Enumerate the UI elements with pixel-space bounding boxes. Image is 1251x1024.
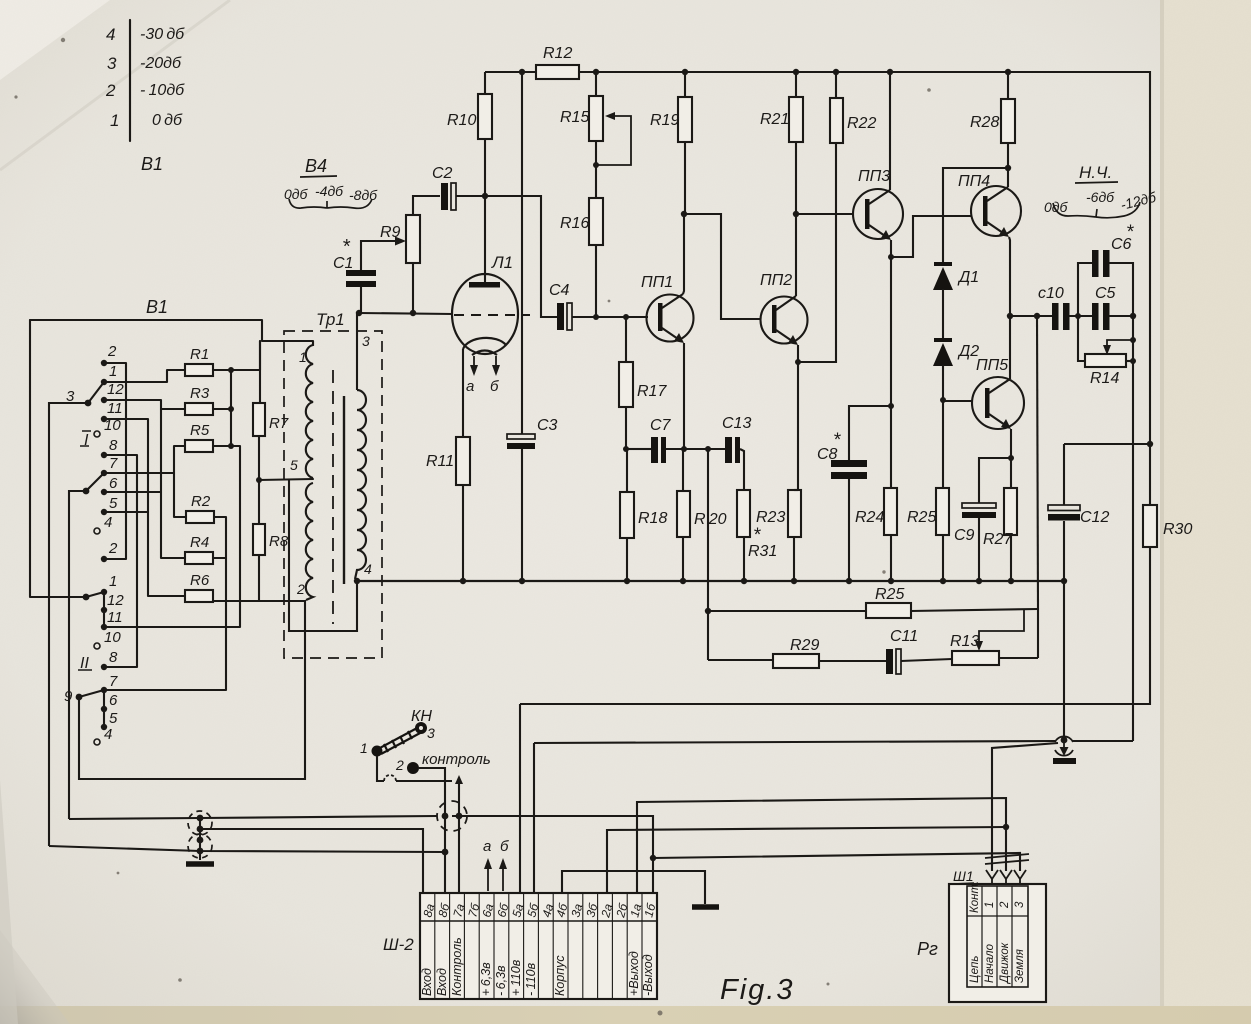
switch B1 section II lower open contact 4: [94, 739, 100, 745]
wire: R9 bottom to grid line: [412, 263, 414, 313]
wire: PP4 emitter down to C10 node: [1009, 237, 1010, 316]
wire: screen supply drop from top rail to C3: [521, 72, 523, 434]
R14 wiper arrow from output node: [1107, 340, 1133, 349]
svg-text:R1: R1: [190, 346, 209, 363]
svg-text:2: 2: [107, 343, 117, 360]
bottom tan band (page edge): [0, 1006, 1251, 1024]
svg-text:5: 5: [109, 710, 118, 727]
svg-text:-8дб: -8дб: [349, 187, 378, 203]
node: 1b drop to Sh1 ground wire: [650, 855, 656, 861]
svg-text:R19: R19: [650, 112, 679, 129]
svg-text:R22: R22: [847, 115, 876, 132]
svg-text:6: 6: [109, 475, 118, 492]
svg-text:R21: R21: [760, 111, 789, 128]
svg-text:б: б: [490, 378, 499, 395]
potentiometer R14: [1078, 316, 1085, 361]
top supply rail right of R12: [579, 72, 1150, 505]
switch B1 section II lower rotor arm: [79, 690, 104, 697]
wire: grid line from node to tube: [359, 313, 453, 314]
switch B1 section I lower rotor arm: [86, 473, 104, 491]
capacitor C4 plates: [557, 303, 564, 330]
resistor R8: [253, 524, 265, 555]
switch B1 section II upper contacts: [83, 589, 108, 670]
wire: B1 top bus to transformer pin1: [30, 320, 313, 341]
resistor R1: [185, 364, 213, 376]
wire: PP5 collector up to PP4 emitter node: [1009, 316, 1011, 379]
wire: contact 11(I) bus x148 to contact 5 and R6 left: [104, 419, 185, 596]
wire: PP3 collector to top rail: [889, 72, 891, 190]
switch B1 section II lower contacts: [76, 687, 108, 730]
svg-text:В1: В1: [141, 154, 163, 174]
svg-text:R4: R4: [190, 534, 209, 551]
wire: PP4 collector to R28 node: [1007, 168, 1009, 187]
wire: R9 top to C2: [413, 196, 440, 215]
wire: R10 top to rail / bottom to anode node: [484, 72, 486, 94]
right page-edge strip: [1162, 0, 1251, 1024]
svg-text:ПП2: ПП2: [760, 272, 792, 289]
svg-text:9: 9: [64, 688, 73, 705]
wire: R6 right lead: [213, 600, 259, 602]
switch B1 section II upper open contact 10: [94, 643, 100, 649]
resistor R15 (rheostat): [589, 96, 603, 141]
wire: +110v line risers (5a): [519, 704, 521, 893]
svg-text:4: 4: [104, 726, 112, 743]
node: kontrol/8b line tee of lower-left wire: [442, 849, 449, 856]
wire: cathode to R11: [462, 349, 464, 437]
svg-text:+ 6,3в: + 6,3в: [479, 962, 493, 996]
wire: R4 right lead: [213, 557, 226, 559]
svg-text:а: а: [466, 378, 474, 395]
wire: C3 bottom to rail: [521, 449, 523, 581]
node: pin4 on ground rail: [354, 578, 360, 584]
wire: PP3 emitter node chain down to R24: [890, 240, 892, 488]
svg-text:R15: R15: [560, 109, 589, 126]
wire: R22 bottom to PP2 emitter node: [798, 143, 836, 362]
wire: R5 right lead and drop x240 to contact 11(II): [104, 446, 240, 627]
svg-text:1: 1: [109, 363, 117, 380]
wire: C2 right to anode node: [456, 195, 485, 197]
wire: R1/R3/R5 right bus x231: [230, 370, 232, 446]
wire: contact 2(I) to ganged vertical x126 to lower contact 2: [104, 363, 126, 559]
svg-text:3: 3: [427, 725, 435, 741]
svg-text:R10: R10: [447, 112, 476, 129]
switch B1 section I upper contacts: [85, 360, 108, 458]
svg-text:-Выход: -Выход: [641, 954, 655, 996]
heater lead a with arrow: [473, 356, 475, 372]
svg-text:8: 8: [109, 649, 118, 666]
resistor R11: [456, 437, 470, 485]
transformer Tp1 core dashed line: [332, 370, 334, 624]
wire: R30 bottom down to +110v line: [520, 547, 1150, 704]
R13 wiper arrow: [979, 609, 1024, 645]
wire: contact 1(I) to R1 left: [104, 370, 185, 382]
wire: left bus to section II upper pivot: [30, 320, 84, 597]
svg-text:-20дб: -20дб: [140, 55, 182, 72]
svg-text:С5: С5: [1095, 285, 1116, 302]
wire: anode to C4 coupling: [485, 196, 557, 317]
wire: contact 7(I) bus x174, R5 left, R2 left: [104, 472, 174, 474]
resistor R4: [185, 552, 213, 564]
svg-text:+Выход: +Выход: [627, 951, 641, 996]
wire: PP1 collector up to R19 node: [683, 214, 684, 294]
transformer Tp1 secondary winding: [355, 390, 366, 579]
wire: bushing left to Sh1 pin1 (nachalo): [992, 743, 1058, 871]
wire: contact 8(I) bus x137 to contact 8(II): [104, 455, 137, 667]
svg-text:Корпус: Корпус: [553, 955, 567, 996]
wire: R11 bottom to ground rail: [462, 485, 464, 581]
svg-text:R14: R14: [1090, 370, 1119, 387]
chain link and ground lead: [199, 818, 201, 860]
wire: I-upper pivot bus to kontrol tee (input a): [49, 846, 445, 852]
wire: C1 top to R9 wiper arrow: [361, 241, 398, 270]
wire: II upper contacts 1-12-11 strap: [103, 592, 105, 627]
pushbutton KN actuator (hatched bar): [378, 727, 422, 754]
svg-text:ПП3: ПП3: [858, 168, 890, 185]
svg-text:ПП1: ПП1: [641, 274, 673, 291]
wire: PP1 emitter down to C7/R20 node: [683, 343, 685, 449]
shielded pair bond chain x200: [197, 815, 204, 855]
tube L1 cathode arc: [463, 338, 506, 349]
svg-text:- 110в: - 110в: [524, 962, 538, 996]
resistor R18: [620, 492, 634, 538]
node: R11 on rail: [460, 578, 466, 584]
shield circle pair 1: [188, 811, 212, 835]
connector Sh1 table texts: [969, 881, 1026, 985]
svg-text:5: 5: [109, 495, 118, 512]
svg-text:R23: R23: [756, 509, 785, 526]
svg-text:R16: R16: [560, 215, 589, 232]
wire: second pair conductor to 8a column: [200, 829, 423, 893]
svg-text:R17: R17: [637, 383, 667, 400]
transformer Tp1 primary lower winding (tap5 to pin2): [306, 483, 313, 600]
switch B1 section I lower contacts: [83, 470, 108, 562]
svg-text:С1: С1: [333, 255, 353, 272]
svg-text:R9: R9: [380, 224, 401, 241]
svg-text:С7: С7: [650, 417, 672, 434]
wire: output node vertical down to shield bushing: [1132, 316, 1134, 741]
R9 wiper arrowhead: [395, 237, 406, 246]
connector Sh-2 pin number labels: [420, 901, 658, 920]
svg-text:R30: R30: [1163, 521, 1192, 538]
wire: tap5 to pin4 return (L inside box): [289, 479, 357, 631]
wire: C13 right down to R31: [740, 449, 744, 490]
junction dots: resistor bank: [228, 367, 262, 483]
svg-text:R18: R18: [638, 510, 667, 527]
switch B1 section I lower open contact 4: [94, 528, 100, 534]
svg-text:1: 1: [360, 740, 368, 756]
wire: contact 6(I) into x161 bus: [104, 491, 161, 493]
wire: korpus 4b to chassis ground: [562, 871, 705, 904]
svg-text:7: 7: [109, 455, 118, 472]
output shield bushing with ground: [1055, 736, 1073, 742]
capacitor C1 plates: [346, 270, 376, 276]
connector Sh-2 signal name labels: [420, 937, 655, 996]
wire: secondary top (pin3) riser to grid line: [356, 313, 358, 390]
connector Sh1 table: [967, 886, 1028, 987]
svg-text:Конт.: Конт.: [969, 881, 981, 913]
svg-text:В4: В4: [305, 156, 327, 176]
N.Ch. scale arc with ticks: [1053, 203, 1096, 217]
wire: R3 left lead: [161, 408, 185, 410]
svg-text:3: 3: [107, 54, 117, 73]
wire: contact 12(I) vertical bus x161 to R3 left, contact 6, R4 left: [104, 400, 185, 558]
svg-text:-30 дб: -30 дб: [140, 26, 185, 43]
svg-text:Земля: Земля: [1014, 949, 1026, 983]
transformer Tp1 primary upper winding (pin1 to tap5): [306, 341, 313, 478]
wire: contact 5(I) into x148 bus: [104, 511, 148, 513]
chassis ground symbol (korpus): [692, 904, 719, 910]
svg-text:С13: С13: [722, 415, 751, 432]
svg-text:Контроль: Контроль: [450, 937, 464, 996]
wire: C4 right to PP1 base: [572, 316, 648, 318]
svg-text:С3: С3: [537, 417, 558, 434]
heater lead b with arrow: [495, 356, 497, 372]
svg-text:1: 1: [110, 111, 119, 130]
svg-text:4: 4: [106, 25, 115, 44]
svg-text:-6дб: -6дб: [1086, 189, 1115, 205]
svg-text:2: 2: [296, 581, 305, 597]
wire: R21/PP2 collector node to PP3 base: [796, 213, 854, 215]
wire: R8 bottom to R6 right bus to transformer pin 2: [259, 555, 305, 601]
svg-text:4: 4: [104, 514, 112, 531]
wire: KN contact1 down and right to 7a riser (with hop arc): [377, 756, 384, 781]
svg-text:5: 5: [290, 457, 298, 473]
resistor R19: [678, 97, 692, 142]
svg-text:2: 2: [395, 757, 404, 773]
svg-text:R13: R13: [950, 633, 979, 650]
svg-text:R2: R2: [191, 493, 211, 510]
svg-text:R27: R27: [983, 531, 1013, 548]
main ground rail: [357, 580, 1064, 582]
ground symbol at shield chain: [186, 861, 214, 867]
resistor R17: [619, 362, 633, 407]
resistor R30: [1143, 505, 1157, 547]
svg-text:-4дб: -4дб: [315, 183, 344, 199]
wire: PP2 collector up to R21 node: [795, 214, 797, 296]
svg-text:- 6,3в: - 6,3в: [494, 965, 508, 996]
connector Sh1 pin forks: [986, 870, 1026, 885]
wire: C12 top to right supply drop: [1064, 443, 1150, 445]
resistor R25 (bias): [936, 488, 949, 535]
bottom-left scan shadow: [0, 930, 70, 1024]
svg-text:1: 1: [109, 573, 117, 590]
attenuator table divider line: [129, 20, 131, 141]
pushbutton KN knob contact 3: [415, 722, 427, 734]
svg-text:В1: В1: [146, 297, 168, 317]
pushbutton KN contact 1: [372, 746, 383, 757]
resistor R3: [185, 403, 213, 415]
wire: C1 bottom to grid node: [360, 287, 362, 313]
tube L1 heater arc: [472, 351, 497, 356]
svg-text:Вход: Вход: [420, 968, 434, 996]
top supply rail left of R12: [485, 71, 536, 73]
top-left crease shadow: [0, 0, 230, 170]
svg-text:3: 3: [1014, 901, 1026, 908]
tube L1 anode bar: [469, 282, 500, 288]
wire: D2 bottom to PP5 base: [943, 400, 972, 402]
top-left light corner: [0, 0, 110, 80]
svg-text:Тр1: Тр1: [316, 310, 345, 329]
svg-text:а: а: [483, 838, 491, 855]
R15 wiper arrow and strap to bottom: [598, 116, 631, 165]
wire: PP3 emitter to PP4 base riser: [891, 216, 971, 257]
svg-text:0 дб: 0 дб: [152, 112, 183, 129]
node: grid/pin3/C1 junction: [356, 310, 362, 316]
wire: R1 right to bus node: [213, 341, 260, 370]
capacitor C8 branch: [888, 403, 894, 409]
svg-text:контроль: контроль: [422, 751, 491, 768]
feedback node riser x708: [707, 449, 709, 660]
svg-text:10: 10: [104, 629, 121, 646]
wire: R17 top to base node, bottom to C7 node: [625, 317, 627, 362]
svg-text:С6: С6: [1111, 236, 1132, 253]
resistor R5: [185, 440, 213, 452]
shield bushing circle at KN risers: [437, 801, 467, 831]
capacitor C3 plates: [507, 434, 535, 439]
connector Sh-2 column separators: [435, 893, 642, 999]
svg-text:С11: С11: [890, 628, 918, 645]
svg-text:Н.Ч.: Н.Ч.: [1079, 163, 1112, 182]
svg-text:R 20: R 20: [694, 511, 727, 528]
resistor R24: [884, 488, 897, 535]
wire: kontrol contact2 right and down to 8b column: [419, 768, 445, 893]
R23 top lead from PP2 emitter chain: [794, 489, 798, 491]
wire: 7a riser from KN down to connector: [458, 782, 460, 893]
svg-text:0дб: 0дб: [1044, 199, 1069, 215]
wire: anode lead up to R10/C2 node: [484, 196, 486, 282]
resistor R21: [789, 97, 803, 142]
tube L1 envelope: [452, 274, 518, 354]
wire: I-lower pivot bus to KN shield circle and to 1b drop: [69, 816, 437, 819]
svg-text:R12: R12: [543, 45, 572, 62]
svg-text:2: 2: [999, 901, 1011, 909]
svg-text:+ 110в: + 110в: [509, 959, 523, 996]
wire: section I lower pivot to left drop bus: [69, 491, 86, 819]
svg-text:3: 3: [362, 333, 370, 349]
resistor R16: [589, 198, 603, 245]
resistor R6: [185, 590, 213, 602]
wire: output line C10/C5 row: [1010, 315, 1052, 317]
wire: bushing to output vertical: [1072, 740, 1133, 742]
feedback riser to C10/C5 node: [1037, 316, 1038, 609]
svg-text:С2: С2: [432, 165, 453, 182]
svg-text:R24: R24: [855, 509, 884, 526]
connector Sh1 cable shield bars: [985, 854, 1029, 858]
switch B1 section II upper rotor arm: [86, 592, 104, 597]
svg-text:Рг: Рг: [917, 939, 938, 959]
svg-text:б: б: [500, 838, 509, 855]
resistor R12 (series in rail): [536, 65, 579, 79]
svg-text:Fig.3: Fig.3: [720, 974, 794, 1006]
svg-text:11: 11: [107, 400, 123, 417]
svg-text:с10: с10: [1038, 285, 1064, 302]
wire: 1b node to Sh1 pin3 (zemlya): [653, 853, 1020, 871]
svg-text:R11: R11: [426, 453, 454, 470]
svg-text:R25: R25: [875, 586, 904, 603]
svg-text:Движок: Движок: [999, 942, 1011, 985]
svg-text:2: 2: [108, 540, 118, 557]
svg-text:2: 2: [105, 81, 116, 100]
wire: -110v line (5b) to shield bushing: [533, 743, 535, 893]
svg-text:R25: R25: [907, 509, 936, 526]
switch B1 section I upper open contact 10: [94, 431, 100, 437]
svg-text:R3: R3: [190, 385, 210, 402]
svg-text:4: 4: [364, 561, 372, 577]
node: C3 on rail: [519, 578, 525, 584]
svg-text:ПП5: ПП5: [976, 357, 1008, 374]
shield circle pair 2: [188, 834, 212, 858]
wire: PP2 emitter node, R22 strap, down to R23: [797, 345, 799, 490]
resistor R20: [677, 491, 690, 537]
label B4 underline: [300, 176, 337, 177]
resistor R10: [478, 94, 492, 139]
svg-text:Д1: Д1: [957, 269, 979, 286]
resistor R7: [253, 403, 265, 436]
svg-text:7: 7: [109, 673, 118, 690]
transformer Tp1 dashed enclosure: [284, 331, 382, 658]
wire: II lower contacts 7-6-5 strap: [103, 690, 105, 727]
wire: D2 node down to R25 (vertical): [942, 400, 944, 488]
connector Sh1 body: [949, 884, 1046, 1002]
svg-text:R5: R5: [190, 422, 210, 439]
svg-text:12: 12: [107, 592, 124, 609]
svg-text:R28: R28: [970, 114, 999, 131]
svg-text:12: 12: [107, 381, 124, 398]
resistor R2: [186, 511, 214, 523]
resistor R31 (selected, asterisk): [737, 490, 750, 537]
wire: pivot 3 to left drop bus: [49, 403, 88, 846]
svg-text:Л1: Л1: [491, 253, 513, 272]
wire: R15 top to rail: [595, 72, 597, 96]
svg-text:С12: С12: [1080, 509, 1109, 526]
capacitor C2 plates: [441, 183, 448, 210]
wire: PP1 collector node to PP2 base: [684, 214, 761, 319]
transformer Tp1 core solid line: [343, 396, 345, 584]
resistor R22: [830, 98, 843, 143]
svg-text:11: 11: [107, 609, 123, 626]
connector Sh-2 body: [420, 893, 657, 999]
node: screen drop on top rail: [519, 69, 525, 75]
svg-text:8: 8: [109, 437, 118, 454]
svg-text:1: 1: [984, 902, 996, 908]
svg-text:С4: С4: [549, 282, 570, 299]
svg-text:1: 1: [299, 349, 307, 365]
node: anode / C2 / R10 junction: [482, 193, 488, 199]
svg-text:Начало: Начало: [984, 943, 996, 983]
svg-text:- 10дб: - 10дб: [140, 82, 185, 99]
wire: R16 bottom to PP1 base line: [595, 245, 597, 317]
svg-text:R8: R8: [269, 533, 289, 550]
diode chain top wire from R28 node: [943, 168, 1006, 263]
svg-text:0дб: 0дб: [284, 186, 309, 202]
wire: R15 bottom to R16 top: [595, 141, 597, 198]
resistor R23: [788, 490, 801, 537]
wire: 2a riser to Sh1: [607, 827, 1006, 893]
svg-text:С9: С9: [954, 527, 975, 544]
resistor R9 (potentiometer): [406, 215, 420, 263]
node: R9 bottom on grid line: [410, 310, 416, 316]
wire: R7 bottom to R8 top junction, to transformer tap 5: [258, 436, 260, 524]
svg-text:R7: R7: [269, 415, 289, 432]
tube L1 grid dashed electrode: [454, 314, 530, 316]
wire: top bus drop to R7 top: [259, 341, 261, 403]
svg-text:R29: R29: [790, 637, 819, 654]
switch B1 section I upper rotor arm: [88, 382, 104, 403]
wire: R3 right lead: [213, 408, 231, 410]
svg-text:Вход: Вход: [435, 968, 449, 996]
svg-text:R6: R6: [190, 572, 210, 589]
svg-text:R31: R31: [748, 543, 777, 560]
